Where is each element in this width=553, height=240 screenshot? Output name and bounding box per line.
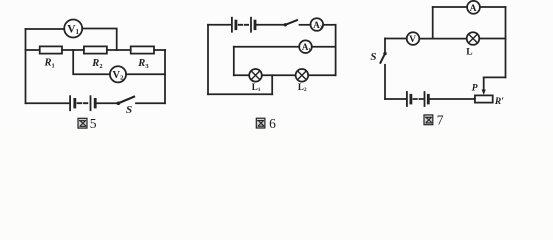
wire: V to lamp L <box>419 38 466 40</box>
wire: A2 to right vertical <box>323 24 336 26</box>
battery cell 1 short plate (fig6) <box>234 21 237 29</box>
battery cell 2 long plate (fig6) <box>250 18 252 32</box>
wire: junction drop to bottom wire <box>271 75 273 94</box>
battery cell 1 short plate (fig7) <box>409 95 412 103</box>
svg-text:P: P <box>472 84 478 94</box>
battery cell 1 short plate <box>73 99 76 107</box>
node A: junction between R1 and R2 <box>72 49 74 51</box>
wire: left vertical lower segment (fig7) <box>384 65 386 99</box>
node: junction at ammeter loop tap <box>432 38 434 40</box>
ammeter A (fig7) <box>467 1 480 14</box>
wire: A1 to right vertical <box>312 46 336 48</box>
wire: right vertical (fig5) <box>164 50 166 103</box>
wire: bottom wire (fig6) <box>208 93 272 95</box>
wire: V2 right to right vertical <box>126 73 165 75</box>
lamp L1 <box>249 69 262 93</box>
battery dashed middle (fig7) <box>414 98 424 100</box>
wire: top wire to ammeter A <box>433 6 467 8</box>
resistor R1 <box>40 46 62 69</box>
switch S blade (fig7) <box>380 54 385 63</box>
battery cell 1 long plate <box>69 96 71 110</box>
ammeter A2 <box>311 18 324 31</box>
lamp L (fig7) <box>466 32 479 57</box>
ammeter A1 <box>299 40 312 53</box>
wire: slider feed from right vertical <box>484 76 506 78</box>
wire: lamp row left segment <box>234 74 249 76</box>
wire: top wire corner to battery <box>208 24 231 26</box>
caption 图5 glyph <box>78 118 87 128</box>
battery cell 1 long plate (fig6) <box>231 18 233 32</box>
wire: switch contact to right vertical <box>136 102 165 104</box>
lamp L2 <box>296 69 309 93</box>
battery dashed middle (fig6) <box>239 24 250 26</box>
wire: row segment R1 to R2 <box>62 49 84 51</box>
wire: V1 right then down to node between R2,R3 <box>82 29 117 51</box>
battery cell 2 long plate (fig7) <box>424 92 426 106</box>
node B: junction between R2 and R3 (V1 tap) <box>116 49 118 51</box>
battery cell 2 short plate (fig7) <box>427 95 430 103</box>
switch S blade <box>118 97 134 104</box>
wire: left vertical (fig6) <box>207 25 209 95</box>
wire: branch row to ammeter A1 <box>234 46 299 48</box>
battery dashed middle <box>78 102 90 104</box>
rheostat slider stem <box>483 77 485 90</box>
wire: right vertical (fig7) <box>505 7 507 77</box>
svg-text:R′: R′ <box>494 97 504 107</box>
voltmeter V1 <box>64 20 82 38</box>
wire: branch row corner + vertical down to lamp row <box>233 47 235 76</box>
node: junction below lamps <box>271 74 273 76</box>
battery cell 2 long plate <box>90 96 92 110</box>
resistor R3 <box>131 46 154 70</box>
wire: row segment R3 to right vertical <box>154 49 165 51</box>
rheostat slider arrowhead P <box>482 90 486 96</box>
wire: battery to switch pivot (fig6) <box>256 24 284 26</box>
wire: row segment R2 to R3 <box>107 49 131 51</box>
wire: top wire from left corner to V1 <box>26 28 65 30</box>
wire: L2 to right vertical <box>308 74 335 76</box>
switch blade (fig6) <box>285 20 297 25</box>
battery cell 2 short plate (fig6) <box>254 21 257 29</box>
voltmeter V2 <box>110 66 126 82</box>
wire: ammeter loop top-left vertical down to main row <box>432 7 434 39</box>
wire: V2 branch from node A down and right <box>73 50 110 74</box>
wire: lamp to right vertical <box>479 38 505 40</box>
wire: switch to ammeter A2 <box>300 24 311 26</box>
wire: A to top-right corner <box>480 6 506 8</box>
svg-text:5: 5 <box>90 116 97 131</box>
wire: bottom left to battery (fig7) <box>385 98 406 100</box>
svg-text:L: L <box>466 47 472 57</box>
rheostat R' body <box>475 95 493 102</box>
switch S pivot dot <box>117 102 121 106</box>
svg-text:6: 6 <box>269 116 276 131</box>
battery cell 1 long plate (fig7) <box>406 92 408 106</box>
switch pivot dot (fig6) <box>284 23 287 26</box>
wire: main row left corner to voltmeter V <box>385 38 407 40</box>
voltmeter V (fig7) <box>407 32 420 45</box>
svg-text:S: S <box>370 51 376 63</box>
wire: left vertical upper segment (fig7) <box>384 39 386 53</box>
svg-text:7: 7 <box>437 113 444 128</box>
svg-text:V: V <box>409 35 416 45</box>
wire: between L1 and L2 <box>262 74 296 76</box>
switch S pivot dot (fig7) <box>383 52 386 55</box>
svg-text:S: S <box>126 104 132 116</box>
svg-text:A: A <box>470 4 477 14</box>
wire: left vertical (fig5) <box>25 29 27 103</box>
wire: row segment from left vertical to R1 <box>26 49 40 51</box>
caption 图7 glyph <box>424 115 433 125</box>
caption 图6 glyph <box>256 118 265 128</box>
wire: battery to rheostat <box>430 98 475 100</box>
wire: battery to switch pivot <box>97 102 118 104</box>
battery cell 2 short plate <box>94 99 97 107</box>
wire: bottom left segment to battery <box>26 102 70 104</box>
wire: right vertical (fig6) <box>335 25 337 76</box>
resistor R2 <box>84 46 107 70</box>
